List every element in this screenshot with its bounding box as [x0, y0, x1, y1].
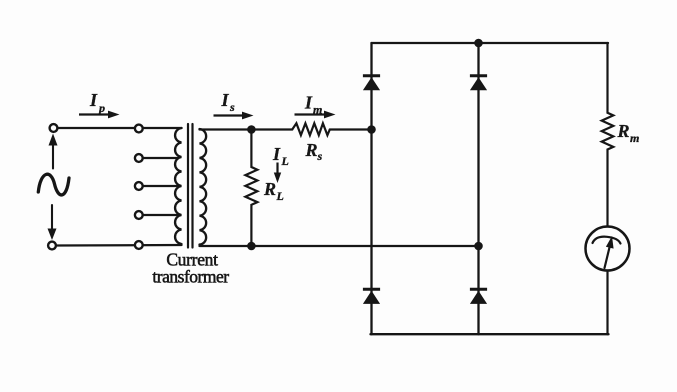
svg-text:I: I	[304, 93, 313, 113]
meter needle	[605, 242, 611, 268]
current Is arrowhead	[242, 112, 254, 120]
terminal tap 3	[135, 182, 143, 190]
svg-text:m: m	[313, 103, 322, 117]
transformer core	[188, 124, 193, 248]
svg-text:m: m	[630, 131, 639, 145]
svg-text:R: R	[617, 121, 630, 141]
junction node bridge top right	[474, 39, 483, 48]
meter M1 circle	[586, 227, 630, 271]
wire tap stub 4	[143, 214, 178, 216]
bridge left vertical wire	[370, 43, 372, 334]
AC source upper arrowhead	[49, 134, 58, 146]
AC source sine symbol	[38, 174, 69, 195]
wire secondary top	[200, 128, 293, 130]
resistor Rs	[292, 123, 330, 135]
svg-text:I: I	[272, 144, 281, 164]
diode D3	[363, 291, 380, 304]
svg-text:R: R	[305, 140, 318, 160]
junction node RL bottom	[247, 242, 256, 251]
meter needle arrowhead	[606, 236, 614, 249]
wire bottom-left primary	[56, 244, 182, 247]
terminal tap 2	[135, 154, 143, 162]
junction node secondary top	[247, 125, 256, 134]
resistor RL	[245, 130, 257, 247]
svg-text:I: I	[221, 90, 230, 110]
wire tap stub 3	[143, 185, 178, 187]
terminal tap 4	[135, 211, 143, 219]
diode D1	[363, 77, 380, 90]
svg-text:R: R	[263, 179, 276, 199]
bridge right vertical wire	[477, 43, 479, 334]
current Ip arrowhead	[108, 111, 120, 119]
terminal source top	[50, 124, 58, 132]
junction node bridge right mid	[474, 242, 483, 251]
bridge bottom wire	[371, 333, 609, 335]
svg-text:s: s	[229, 100, 235, 114]
svg-text:L: L	[281, 154, 289, 168]
wire Rs to bridge	[330, 128, 372, 130]
terminal tap 5	[135, 241, 143, 249]
svg-text:p: p	[98, 101, 105, 115]
current IL arrowhead	[274, 173, 281, 184]
terminal tap 1	[135, 125, 143, 133]
transformer secondary winding	[200, 129, 207, 245]
wire tap stub 2	[143, 157, 178, 159]
diode D2	[470, 77, 487, 90]
wire top-left primary	[57, 127, 182, 129]
svg-text:s: s	[317, 149, 323, 163]
svg-text:L: L	[276, 189, 284, 203]
svg-text:I: I	[89, 90, 98, 110]
svg-text:transformer: transformer	[152, 267, 229, 287]
AC source upper arrow	[52, 143, 54, 169]
current Is arrow line	[214, 114, 246, 116]
meter branch wire with resistor Rm	[602, 43, 614, 334]
current IL arrow line	[276, 163, 278, 177]
terminal source bottom	[48, 242, 56, 250]
AC source lower arrow	[51, 205, 53, 229]
current Ip arrow line	[79, 113, 111, 115]
transformer primary winding	[175, 128, 181, 244]
bridge top wire	[372, 42, 609, 44]
AC source lower arrowhead	[48, 229, 57, 241]
meter scale curve	[593, 237, 621, 244]
diode D4	[470, 291, 487, 304]
junction node bridge left mid	[367, 125, 376, 134]
current Im arrowhead	[324, 111, 336, 119]
current Im arrow line	[295, 113, 328, 115]
wire secondary bottom	[200, 245, 479, 247]
